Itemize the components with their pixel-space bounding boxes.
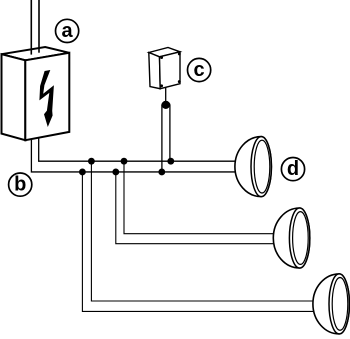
svg-text:d: d [287, 158, 299, 180]
svg-text:b: b [14, 174, 26, 196]
svg-text:c: c [194, 59, 205, 81]
svg-text:a: a [62, 20, 74, 42]
